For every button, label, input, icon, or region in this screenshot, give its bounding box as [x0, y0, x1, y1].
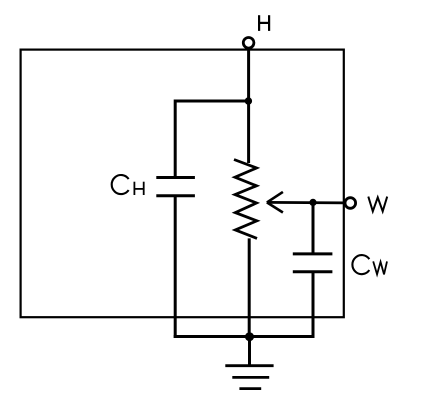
enclosure box [21, 50, 344, 318]
node junction wiper [309, 199, 316, 206]
label C_H [112, 175, 144, 195]
capacitor C_W [293, 254, 333, 272]
node junction ground [245, 332, 254, 341]
wire H to resistor top [247, 49, 250, 163]
capacitor C_H [156, 178, 195, 196]
terminal H [243, 38, 254, 49]
wiper wire to terminal W [267, 201, 345, 204]
wiper arrowhead [267, 192, 283, 213]
label W [368, 197, 387, 212]
label C_W [352, 255, 387, 274]
label H [259, 15, 269, 31]
wire junction to C_W [312, 202, 315, 254]
wire junction to C_H [175, 101, 248, 178]
potentiometer R1 zigzag [234, 160, 257, 239]
wire C_H to bottom bus [174, 196, 177, 338]
wire C_W to bottom bus [312, 272, 315, 338]
wire resistor bottom to bus [248, 238, 251, 338]
wire to ground [248, 337, 251, 366]
ground [225, 366, 273, 389]
bottom bus wire [174, 335, 315, 338]
node junction top [245, 97, 252, 104]
terminal W [345, 198, 356, 209]
